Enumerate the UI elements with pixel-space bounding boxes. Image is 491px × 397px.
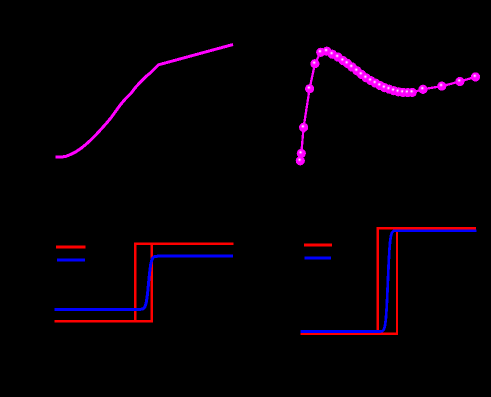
bottom-left legend red swatch xyxy=(56,246,86,249)
top-left subplot: magenta sigmoid curve xyxy=(56,45,234,158)
bottom-right legend blue swatch xyxy=(305,257,332,260)
bottom-left red hysteresis step xyxy=(55,244,234,322)
bottom-left blue step xyxy=(54,256,233,309)
top-right subplot: magenta curve with markers xyxy=(296,47,480,166)
bottom-right legend red swatch xyxy=(304,244,332,247)
bottom-right red hysteresis step xyxy=(301,228,476,334)
bottom-left legend blue swatch xyxy=(57,259,85,262)
bottom-right blue step xyxy=(301,231,477,332)
top-right markers xyxy=(296,156,305,165)
